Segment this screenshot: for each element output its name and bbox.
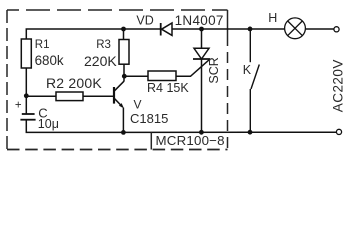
terminal: top (to AC220V): [334, 27, 339, 32]
node: collector / R3 / R4 junction: [122, 74, 127, 79]
module box MCR100-8 (dashed boundary): [7, 10, 228, 150]
resistor R1: [21, 39, 31, 96]
svg-text:C1815: C1815: [130, 111, 168, 126]
wire: junction to R4: [124, 75, 148, 77]
wire: R4 to SCR gate: [176, 59, 210, 76]
wire: R2 left lead: [26, 95, 56, 97]
node: emitter / bottom rail: [121, 130, 126, 135]
svg-text:R2 200K: R2 200K: [46, 75, 102, 91]
resistor R4: [148, 71, 176, 81]
svg-text:10μ: 10μ: [38, 117, 59, 131]
svg-text:V: V: [134, 98, 142, 112]
node: top rail / SCR anode: [199, 27, 204, 32]
thyristor SCR: [193, 29, 210, 132]
svg-text:K: K: [243, 63, 252, 77]
terminal: bottom (to AC220V): [336, 129, 341, 134]
svg-text:R4 15K: R4 15K: [147, 81, 189, 95]
svg-text:H: H: [268, 11, 277, 25]
node: top rail / switch K branch: [248, 27, 253, 32]
transistor V C1815: [114, 76, 124, 132]
svg-text:VD: VD: [136, 13, 153, 27]
wire: junction to capacitor: [25, 96, 27, 114]
svg-text:680k: 680k: [35, 53, 64, 68]
wire: top rail diode to lamp: [172, 28, 285, 30]
wire: top rail from R1 corner to diode: [26, 29, 160, 39]
node: switch K / bottom rail: [248, 130, 253, 135]
node: R1/C/R2 junction: [24, 93, 29, 98]
resistor R3: [119, 29, 129, 76]
resistor R2: [56, 92, 83, 101]
svg-text:R1: R1: [35, 39, 50, 51]
lamp H: [285, 18, 306, 39]
diode VD 1N4007: [161, 23, 172, 36]
svg-text:MCR100−8: MCR100−8: [156, 133, 225, 148]
node: top rail / R3: [121, 27, 126, 32]
node: SCR cathode / bottom rail: [199, 130, 204, 135]
switch K: [250, 29, 259, 132]
svg-text:220K: 220K: [84, 53, 117, 69]
svg-text:R3: R3: [96, 39, 111, 51]
capacitor C (electrolytic): [20, 114, 35, 120]
wire: lamp to top terminal: [306, 28, 334, 30]
svg-text:AC220V: AC220V: [330, 59, 345, 112]
wire: bottom rail: [26, 120, 336, 133]
svg-text:SCR: SCR: [207, 57, 221, 83]
label box tick for MCR100-8: [150, 132, 152, 149]
svg-text:+: +: [15, 100, 22, 112]
svg-text:1N4007: 1N4007: [175, 13, 224, 28]
wire: R2 right lead to base: [83, 95, 113, 97]
